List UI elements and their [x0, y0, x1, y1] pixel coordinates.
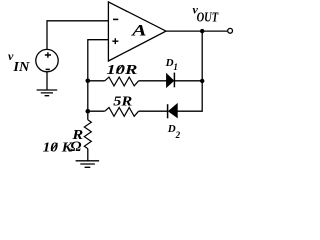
wire 10R row left segment [88, 80, 105, 82]
svg-text:A: A [131, 22, 147, 39]
diode D2 cathode bar [167, 104, 169, 118]
diode D2 triangle (pointing left) [169, 104, 178, 117]
op-amp non-inverting input marker (plus) [112, 38, 118, 44]
diode D1 cathode bar [173, 73, 175, 88]
svg-text:D: D [165, 57, 174, 69]
resistor R vertical zigzag [84, 120, 91, 149]
svg-text:2: 2 [175, 130, 181, 140]
wire D2 to right bus corner [177, 110, 202, 112]
junction dot output node [200, 29, 204, 33]
svg-text:1: 1 [173, 62, 178, 72]
junction dot left bus / 5R row [86, 109, 91, 114]
wire R to ground [87, 149, 89, 161]
resistor 10R zigzag [105, 77, 139, 86]
junction dot right bus / D1 row [200, 79, 204, 83]
wire 5R to diode D2 [139, 110, 167, 112]
slash on zero of 10R [116, 65, 123, 74]
wire op-amp output to terminal [166, 30, 227, 32]
junction dot left bus / 10R row [86, 79, 91, 84]
diode D1 anode triangle (pointing right) [167, 74, 174, 87]
wire left bus vertical [87, 39, 89, 120]
wire 10R to diode D1 [139, 80, 167, 82]
ground symbol under R [76, 161, 100, 168]
ground symbol under source [37, 90, 58, 96]
svg-text:IN: IN [12, 59, 30, 74]
voltage source plus sign [45, 52, 51, 57]
voltage source minus sign [46, 68, 50, 70]
resistor 5R zigzag [105, 108, 139, 117]
svg-text:10 K: 10 K [43, 141, 74, 156]
wire from source top to inverting input [47, 21, 108, 50]
slash on zero of 10 KOhm [51, 143, 58, 151]
svg-text:D: D [167, 123, 176, 135]
wire right bus vertical [201, 31, 203, 112]
wire source bottom to ground [46, 72, 48, 90]
voltage source V1 (vIN) circle [36, 49, 58, 71]
wire from left bus to non-inverting input [88, 39, 109, 41]
wire D1 to right bus [174, 80, 202, 82]
wire 5R row left segment [88, 110, 105, 112]
svg-text:OUT: OUT [197, 9, 219, 24]
op-amp U1 triangle [108, 2, 166, 61]
output terminal vOUT (open circle) [228, 28, 233, 33]
svg-text:Ω: Ω [70, 139, 81, 155]
svg-text:5R: 5R [113, 95, 132, 110]
op-amp inverting input marker (minus) [113, 18, 118, 20]
